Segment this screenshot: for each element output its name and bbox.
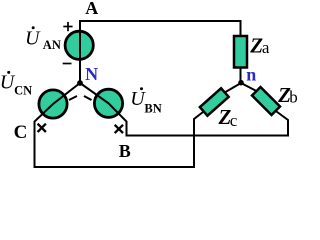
label C	[14, 122, 28, 143]
plus mark U_AN	[63, 22, 72, 31]
minus mark U_AN	[63, 63, 72, 65]
source U_AN	[65, 31, 93, 59]
impedance Zb	[252, 87, 280, 115]
wire N to B corner	[80, 83, 288, 136]
svg-text:A: A	[85, 0, 98, 18]
svg-text:b: b	[289, 88, 298, 107]
wire through U_AN	[79, 30, 81, 61]
svg-text:AN: AN	[43, 38, 61, 52]
label Zc	[218, 105, 238, 130]
svg-text:c: c	[230, 111, 238, 130]
node N	[77, 80, 83, 86]
svg-text:C: C	[14, 122, 28, 143]
label n	[246, 65, 256, 85]
svg-text:n: n	[246, 65, 256, 85]
svg-text:CN: CN	[14, 84, 32, 98]
label B	[119, 141, 131, 161]
plus mark U_CN (x)	[38, 124, 46, 132]
wire N to C corner	[35, 83, 204, 167]
svg-text:N: N	[85, 64, 98, 84]
label N	[85, 64, 98, 84]
label U_AN	[25, 26, 61, 52]
svg-text:a: a	[262, 38, 270, 57]
label Za	[249, 33, 270, 57]
label Zb	[277, 83, 298, 107]
svg-text:BN: BN	[144, 102, 161, 116]
label U_CN	[0, 71, 32, 98]
label U_BN	[130, 87, 162, 115]
wire Za to node n	[240, 69, 242, 84]
impedance Za	[234, 36, 247, 68]
node n	[238, 80, 244, 86]
svg-text:U: U	[25, 28, 41, 50]
source U_BN	[94, 89, 122, 117]
wire n to Zb	[241, 83, 256, 91]
minus mark U_CN	[69, 96, 77, 100]
wire n to Zc	[226, 83, 242, 92]
minus mark U_BN	[84, 96, 92, 100]
impedance Zc	[200, 88, 229, 115]
plus mark U_BN (x)	[115, 125, 123, 133]
svg-text:B: B	[119, 141, 131, 161]
source U_CN	[39, 90, 67, 118]
label A	[85, 0, 98, 18]
wire A top	[80, 21, 241, 83]
